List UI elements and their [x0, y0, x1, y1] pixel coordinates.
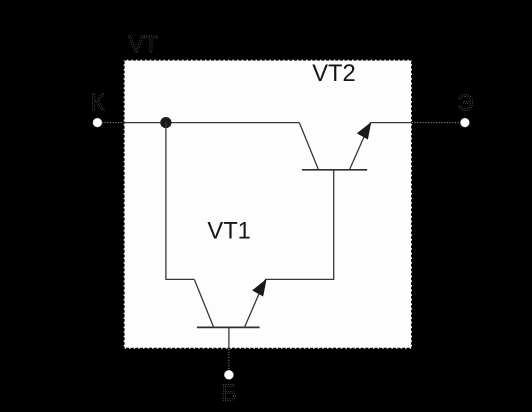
- VT1 emitter arrow: [252, 279, 267, 297]
- VT1 base lead (inside box): [228, 327, 230, 348]
- wire: VT1 emitter to VT2 base: [265, 170, 334, 279]
- terminal K (collector pin): [91, 89, 124, 127]
- svg-text:VT1: VT1: [207, 218, 250, 244]
- label VT (ghost, outside box): [128, 31, 158, 57]
- svg-text:VT2: VT2: [312, 61, 355, 87]
- label VT2: [312, 61, 355, 87]
- svg-text:Э: Э: [457, 90, 473, 116]
- VT1 emitter lead: [245, 280, 265, 326]
- VT2 emitter arrow: [357, 122, 372, 140]
- component outline VT (dashed box): [124, 60, 412, 349]
- svg-text:VT: VT: [128, 31, 158, 57]
- transistor VT1: [194, 279, 266, 349]
- transistor VT2: [299, 122, 371, 170]
- VT1 collector lead: [194, 279, 213, 326]
- node: collector junction: [160, 117, 171, 128]
- terminal Э (emitter pin): [412, 90, 474, 128]
- VT2 collector lead: [299, 123, 318, 169]
- VT1 base bar: [197, 326, 260, 328]
- terminal Б (base pin): [221, 349, 236, 406]
- VT2 base bar: [302, 169, 367, 171]
- wire: VT2 emitter to box edge: [370, 122, 412, 124]
- svg-text:К: К: [91, 89, 105, 115]
- label VT1: [207, 218, 250, 244]
- wire: collector rail (K to VT2 collector bend): [124, 122, 300, 124]
- wire: junction down and over to VT1 collector: [166, 123, 194, 280]
- VT2 emitter lead: [350, 123, 371, 169]
- svg-text:Б: Б: [221, 380, 236, 406]
